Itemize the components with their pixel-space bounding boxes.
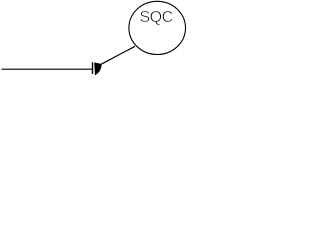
svg-text:SQC: SQC [140, 9, 173, 26]
terminal bar (vertical stub at wire end) [92, 62, 94, 74]
wire W2 (diagonal leader line to balloon) [101, 46, 135, 64]
instrument balloon SQC (circle outline) [129, 1, 186, 54]
arrowhead (solid triangle at leader end) [95, 63, 102, 75]
wire W1 (horizontal input line) [2, 68, 93, 70]
